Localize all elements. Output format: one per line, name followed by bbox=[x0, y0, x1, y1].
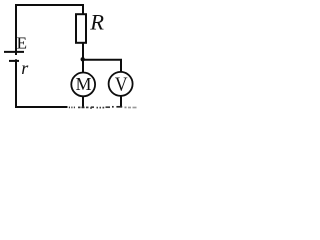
wire: motor bottom lead bbox=[82, 96, 84, 107]
voltmeter V circle bbox=[109, 72, 133, 96]
svg-text:E: E bbox=[17, 33, 27, 52]
wire: bottom solid segment bbox=[15, 106, 68, 108]
battery E long plate (positive) bbox=[4, 51, 24, 53]
battery E short plate (negative) bbox=[9, 60, 19, 62]
wire: branch right to voltmeter bbox=[83, 60, 121, 72]
svg-text:V: V bbox=[115, 73, 128, 95]
wire: left vertical + top horizontal + drop to resistor bbox=[16, 5, 83, 55]
svg-text:r: r bbox=[21, 58, 29, 78]
svg-text:R: R bbox=[89, 9, 104, 34]
wire: junction down to motor bbox=[82, 59, 84, 73]
wire: battery bottom down the left side bbox=[15, 59, 17, 107]
motor M circle bbox=[71, 73, 95, 97]
node junction dot bbox=[81, 57, 85, 61]
wire: faded dash-dot continuation of bottom wire bbox=[69, 107, 137, 109]
svg-text:M: M bbox=[76, 74, 92, 94]
wire: voltmeter bottom lead bbox=[120, 96, 122, 107]
wire: resistor bottom to junction bbox=[82, 44, 84, 61]
resistor R box bbox=[76, 14, 86, 43]
